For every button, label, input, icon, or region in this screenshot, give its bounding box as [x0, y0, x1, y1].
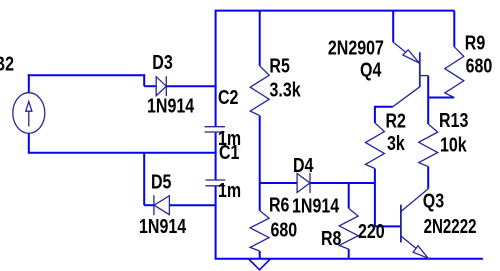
svg-text:2N2222: 2N2222	[424, 215, 477, 238]
svg-text:1N914: 1N914	[147, 95, 194, 117]
svg-text:R2: R2	[386, 110, 406, 132]
svg-text:10k: 10k	[440, 134, 468, 156]
svg-text:680: 680	[271, 219, 298, 241]
svg-text:B2: B2	[0, 53, 14, 75]
svg-text:2N2907: 2N2907	[328, 37, 384, 59]
svg-text:D5: D5	[151, 171, 171, 193]
svg-text:D4: D4	[293, 155, 313, 177]
svg-text:R9: R9	[465, 32, 485, 54]
svg-text:R6: R6	[269, 194, 289, 216]
svg-text:Q4: Q4	[360, 59, 381, 81]
svg-text:R5: R5	[269, 55, 289, 77]
svg-text:1N914: 1N914	[292, 195, 339, 217]
svg-text:1N914: 1N914	[139, 215, 186, 237]
svg-text:220: 220	[358, 220, 385, 242]
svg-text:C1: C1	[219, 141, 239, 163]
svg-text:D3: D3	[152, 51, 172, 73]
svg-text:1m: 1m	[218, 179, 241, 201]
svg-text:R13: R13	[439, 109, 468, 131]
svg-text:680: 680	[466, 55, 493, 77]
svg-text:Q3: Q3	[423, 190, 444, 212]
svg-text:R8: R8	[321, 227, 341, 249]
svg-text:3.3k: 3.3k	[270, 79, 302, 101]
svg-text:C2: C2	[218, 86, 238, 108]
svg-text:3k: 3k	[387, 133, 406, 155]
